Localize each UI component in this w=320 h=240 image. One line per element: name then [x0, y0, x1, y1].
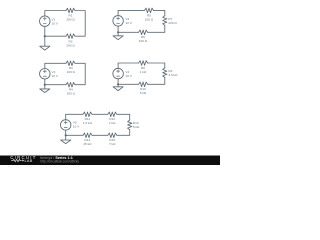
- voltage source V4: [113, 68, 124, 79]
- footer bar: [0, 156, 220, 166]
- resistor R12: [108, 112, 117, 117]
- resistor R5: [145, 8, 154, 13]
- wire C4 bottom: V4 bottom stub to R10: [118, 79, 139, 85]
- resistor R7: [163, 16, 167, 26]
- ground G3: [40, 85, 50, 93]
- ground G1: [40, 36, 50, 50]
- wire C5 bottom-right corner to R15: [117, 130, 130, 136]
- wire C3 bottom: V2 bottom stub to R4: [45, 79, 66, 85]
- CircuitLab logo resistor glyph: [11, 159, 21, 161]
- svg-text:3.5 kΩ: 3.5 kΩ: [168, 73, 178, 77]
- wire C2 bottom: V3 bottom stub to R6: [118, 26, 139, 32]
- svg-text:10 V: 10 V: [52, 74, 59, 78]
- ground G5: [61, 135, 71, 143]
- wire C2 bottom-right corner to R6: [148, 25, 165, 32]
- wire C5 bottom middle: R14 to R15: [92, 134, 108, 136]
- svg-text:CIRCUIT: CIRCUIT: [10, 155, 37, 160]
- resistor R8: [139, 61, 148, 66]
- svg-text:1.5 kΩ: 1.5 kΩ: [83, 121, 93, 125]
- wire C5 top-left: V5 top stub and top wire to R11: [66, 114, 83, 119]
- resistor R15: [108, 133, 117, 138]
- resistor R6: [139, 30, 148, 35]
- svg-text:200 Ω: 200 Ω: [66, 17, 75, 21]
- ground G2: [113, 32, 123, 39]
- svg-text:25 kΩ: 25 kΩ: [83, 142, 92, 146]
- svg-text:100 Ω: 100 Ω: [139, 39, 148, 43]
- node N5: C5 junction: [65, 134, 67, 136]
- wire C1 bottom: V1 bottom stub to R2: [45, 26, 66, 36]
- svg-text:300 Ω: 300 Ω: [67, 92, 76, 96]
- resistor R11: [83, 112, 92, 117]
- wire C4 bottom-right corner to R10: [148, 78, 165, 85]
- wire C4 top-right corner down to R9: [148, 63, 165, 68]
- svg-text:1 kΩ: 1 kΩ: [109, 121, 116, 125]
- svg-text:200 Ω: 200 Ω: [66, 44, 75, 48]
- svg-text:10 V: 10 V: [125, 21, 132, 25]
- ground G4: [113, 84, 123, 90]
- wire C1 top-right corner and right side: [75, 11, 85, 37]
- resistor R1: [66, 8, 75, 13]
- resistor R10: [139, 82, 148, 87]
- node N3: C3 junction: [44, 84, 46, 86]
- node N1: C1 junction: [44, 35, 46, 37]
- voltage source V3: [113, 16, 124, 27]
- resistor R3: [66, 61, 75, 66]
- wire C5 bottom: V5 bottom stub to R14: [66, 130, 83, 135]
- wire C4 top-left: V4 top stub and top wire to R8: [118, 63, 139, 68]
- resistor R13: [128, 120, 132, 130]
- voltage source V1: [40, 16, 51, 27]
- wire C5 top-right corner down to R13: [117, 114, 130, 120]
- svg-text:100 Ω: 100 Ω: [67, 70, 76, 74]
- svg-text:5 kΩ: 5 kΩ: [133, 125, 140, 129]
- svg-text:http://circuitlab.com/c6fcky: http://circuitlab.com/c6fcky: [40, 159, 79, 163]
- wire C1 top-left: V1 top stub and top wire to R1: [45, 11, 66, 17]
- wire C2 top-right corner down to R7: [154, 10, 165, 15]
- svg-text:100 Ω: 100 Ω: [145, 17, 154, 21]
- node N2: C2 junction: [117, 31, 119, 33]
- wire C3 top-left: V2 top stub and top wire to R3: [45, 63, 66, 68]
- voltage source V2: [40, 69, 51, 80]
- svg-text:10 V: 10 V: [125, 74, 132, 78]
- svg-text:10 V: 10 V: [52, 22, 59, 26]
- resistor R2: [66, 34, 75, 39]
- svg-text:10 V: 10 V: [73, 125, 80, 129]
- svg-text:200 Ω: 200 Ω: [168, 21, 177, 25]
- resistor R14: [83, 133, 92, 138]
- voltage source V5: [60, 120, 71, 130]
- svg-text:1 kΩ: 1 kΩ: [140, 70, 147, 74]
- CircuitLab logo arrow glyph: [22, 159, 24, 161]
- svg-text:5 kΩ: 5 kΩ: [140, 91, 147, 95]
- wire C3 top-right corner and right side: [75, 63, 85, 84]
- resistor R4: [66, 82, 75, 87]
- svg-text:LAB: LAB: [25, 159, 33, 163]
- svg-text:7 kΩ: 7 kΩ: [109, 142, 116, 146]
- node N4: C4 junction: [117, 83, 119, 85]
- resistor R9: [163, 68, 167, 78]
- wire C2 top-left: V3 top stub and top wire to R5: [118, 10, 144, 15]
- wire C5 top middle: R11 to R12: [92, 113, 108, 115]
